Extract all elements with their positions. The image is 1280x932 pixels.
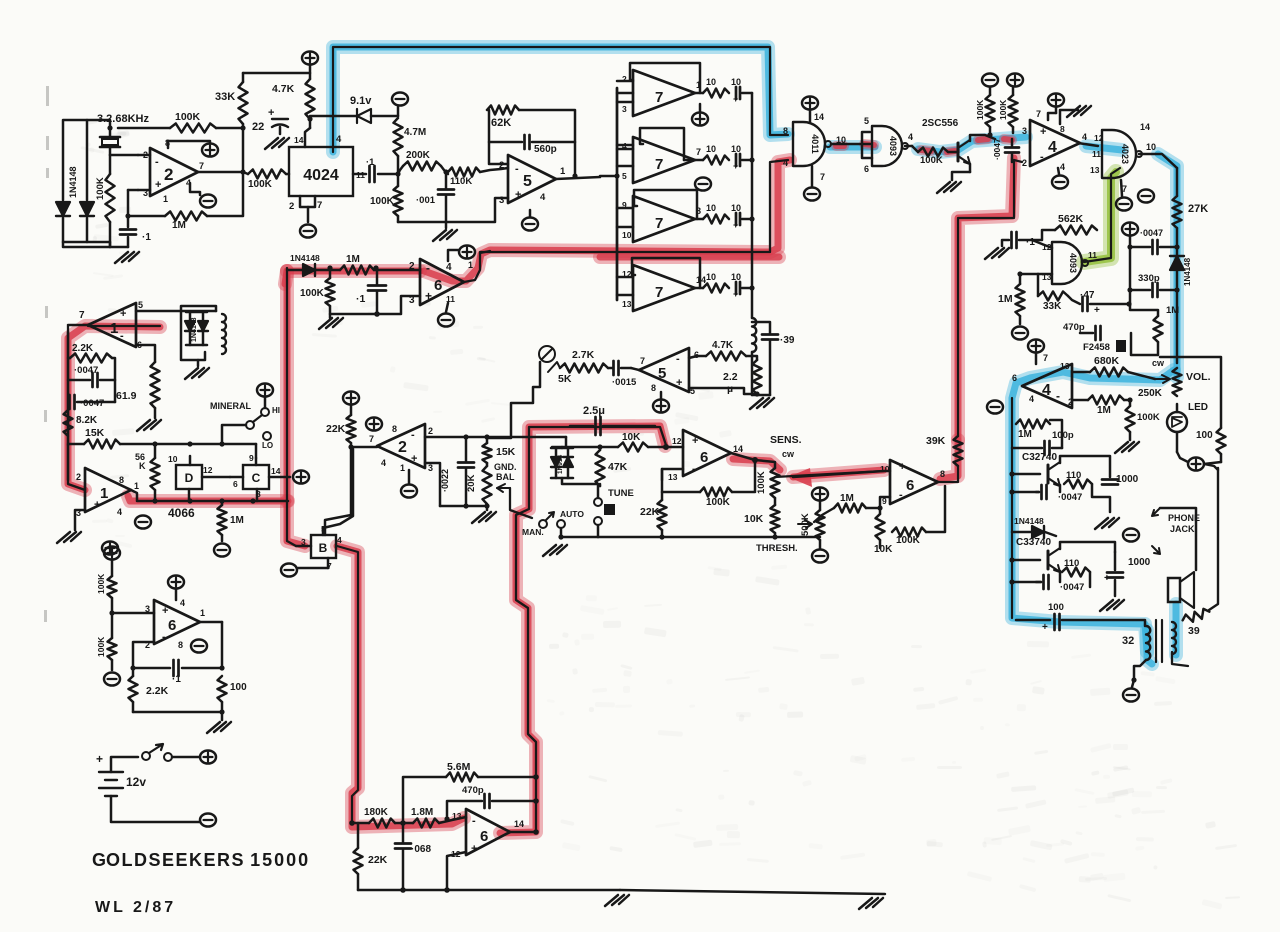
resistor 1.8M — [413, 819, 439, 828]
svg-text:8: 8 — [392, 424, 397, 434]
wire U5 to rail — [614, 173, 619, 178]
svg-text:4: 4 — [337, 535, 342, 545]
svg-text:+: + — [1094, 305, 1100, 316]
resistor 100K top — [170, 124, 216, 133]
resistor 39 slant — [1181, 607, 1210, 624]
svg-text:·068: ·068 — [411, 844, 431, 855]
svg-text:2.5μ: 2.5μ — [583, 405, 605, 417]
resistor 100K bl1 — [108, 576, 117, 598]
wire 100 r — [1160, 357, 1221, 428]
svg-text:·0015: ·0015 — [612, 377, 637, 388]
svg-text:6: 6 — [233, 479, 238, 489]
svg-text:+: + — [162, 605, 168, 617]
svg-text:1: 1 — [400, 463, 405, 473]
wire 2.5u leads — [570, 425, 593, 428]
svg-text:10: 10 — [168, 454, 178, 464]
wire .47 right — [1090, 303, 1129, 306]
wire 1M rcol — [1130, 305, 1158, 316]
wire left rails — [63, 120, 110, 200]
wire 4.7K down — [309, 119, 312, 128]
svg-text:8.2K: 8.2K — [76, 415, 98, 426]
svg-text:1M: 1M — [346, 254, 360, 265]
wire U5 plus input — [446, 198, 508, 222]
svg-text:+: + — [411, 453, 417, 465]
svg-text:·0047: ·0047 — [80, 398, 104, 409]
wire U8b out — [905, 145, 912, 148]
wire U8c in13 — [1038, 273, 1052, 276]
wire highlight blue audio loop — [1012, 370, 1174, 652]
U7c fb box — [634, 190, 697, 219]
wire xfmr — [1134, 660, 1146, 680]
svg-text:10K: 10K — [622, 432, 641, 443]
svg-text:470p: 470p — [462, 785, 484, 796]
svg-text:100: 100 — [1196, 430, 1213, 441]
svg-text:K: K — [139, 461, 146, 471]
svg-text:1N4148: 1N4148 — [1183, 257, 1192, 286]
svg-text:13: 13 — [452, 811, 462, 821]
IC U3 4024 box — [289, 147, 353, 196]
svg-text:+: + — [155, 179, 161, 191]
wire u2b net right — [487, 436, 566, 439]
wire fb loop — [207, 172, 243, 216]
power plus 22K — [343, 391, 359, 404]
wire audio under blue v — [1011, 398, 1013, 618]
comparator U7d — [633, 265, 695, 311]
svg-text:1N4148: 1N4148 — [68, 166, 78, 198]
wire switch plus — [172, 756, 200, 759]
power plus opamp2 — [202, 143, 218, 156]
svg-text:7: 7 — [820, 172, 825, 182]
wire Q3 base — [1012, 559, 1040, 562]
resistor 110 q3 — [1062, 568, 1090, 577]
wire U6a out — [464, 251, 490, 282]
svg-text:4: 4 — [1060, 162, 1065, 172]
svg-text:32: 32 — [1122, 635, 1134, 647]
U7b fb box — [640, 128, 684, 160]
wire highlight red 4066 row — [128, 496, 288, 501]
op-amp U1b — [85, 468, 131, 512]
transistor Q2 — [1047, 465, 1050, 483]
svg-text:1M: 1M — [840, 493, 854, 504]
svg-text:6: 6 — [700, 449, 708, 466]
wire U5 out — [556, 177, 600, 179]
wire U6b in12 — [666, 446, 683, 449]
wire thresh loop — [926, 486, 945, 532]
wire U4a in2 black — [958, 160, 1014, 436]
svg-text:D: D — [185, 471, 194, 485]
op-amp U6e — [466, 809, 510, 855]
resistor 100K pullups — [986, 95, 995, 127]
svg-text:10: 10 — [731, 144, 741, 154]
wire highlight red left loop — [68, 326, 160, 490]
pot VOL — [1173, 368, 1182, 396]
wire Q2 emitter net — [1059, 485, 1062, 492]
wire coil cap join — [751, 352, 754, 395]
svg-text:4023: 4023 — [1120, 144, 1130, 164]
svg-text:+: + — [1104, 573, 1110, 584]
gate U8c 4093 — [1052, 242, 1082, 284]
wire pullup2 — [1012, 127, 1015, 133]
wire highlight red mid column — [285, 271, 287, 284]
svg-text:100: 100 — [230, 682, 247, 693]
resistor 1M u4b — [1088, 396, 1124, 405]
op-amp U2 — [150, 148, 198, 196]
power minus U6a — [438, 313, 454, 326]
resistor 5.6M — [446, 773, 478, 782]
pot 500K arrow — [798, 520, 812, 528]
resistor 33K rm — [1038, 292, 1068, 301]
wire rcol mid — [1129, 290, 1132, 305]
svg-text:·0047: ·0047 — [1140, 228, 1163, 238]
power plus 500K — [812, 487, 828, 500]
wire U6b out — [731, 453, 755, 460]
wire 1M to pot — [814, 508, 834, 522]
resistor 2.2K — [70, 354, 112, 363]
resistor 100K vert — [106, 174, 115, 222]
resistor 110K — [448, 168, 480, 177]
resistor 100K bl2 — [108, 638, 117, 660]
comparator U7b — [633, 137, 695, 183]
svg-text:13: 13 — [1060, 361, 1070, 371]
svg-text:8: 8 — [119, 475, 124, 485]
svg-text:4: 4 — [336, 134, 342, 145]
op-amp U6c — [890, 460, 938, 504]
svg-text:100K: 100K — [896, 535, 921, 546]
svg-text:5: 5 — [622, 171, 627, 181]
wire U6e out — [510, 831, 536, 834]
wire batt bottom — [111, 796, 200, 822]
svg-text:10: 10 — [731, 203, 741, 213]
svg-text:F2458: F2458 — [1083, 342, 1110, 353]
svg-text:560p: 560p — [534, 144, 557, 155]
wire rcol bottom — [1131, 333, 1158, 355]
svg-text:2: 2 — [499, 160, 504, 171]
resistor 4.7K b — [706, 352, 746, 361]
svg-text:μ: μ — [727, 384, 733, 395]
svg-text:110K: 110K — [450, 176, 472, 187]
svg-text:2: 2 — [289, 201, 294, 212]
wire auto gnd — [560, 528, 563, 537]
svg-text:7: 7 — [655, 284, 663, 301]
svg-text:100K: 100K — [96, 573, 106, 594]
wire u4b fb — [1127, 397, 1132, 402]
resistor 27K — [1173, 196, 1182, 228]
svg-text:10K: 10K — [744, 513, 764, 525]
ground q3 — [1100, 600, 1124, 611]
power plus rcol — [1122, 222, 1138, 235]
svg-text:1M: 1M — [1166, 305, 1179, 316]
svg-text:7: 7 — [655, 156, 663, 173]
wire gndbal wiper — [510, 488, 532, 518]
wire pin2 from xtal — [110, 154, 138, 157]
U8a pwr — [802, 96, 818, 109]
svg-text:+: + — [94, 499, 100, 511]
svg-text:27K: 27K — [1188, 203, 1208, 215]
op-amp U4a — [1030, 120, 1080, 166]
gate U9 4023 — [1102, 130, 1136, 178]
wire B bottom — [327, 558, 330, 568]
wire diode box top — [561, 447, 564, 448]
resistor 2.2K bl — [129, 676, 138, 702]
svg-text:14: 14 — [814, 112, 824, 122]
resistor 100K u4b — [1126, 406, 1135, 432]
svg-text:7: 7 — [369, 434, 374, 444]
resistor 100K thresh — [892, 528, 926, 537]
wire left rail rx — [67, 332, 70, 445]
wire U2b apex — [351, 446, 377, 449]
wire C bottom — [256, 489, 259, 501]
resistor 1M rcol — [1154, 316, 1163, 342]
wire batt top — [111, 757, 138, 772]
wire 4.7M node — [395, 171, 400, 176]
power minus 4024 — [300, 224, 316, 237]
svg-text:SENS.: SENS. — [770, 434, 802, 446]
svg-text:14: 14 — [1140, 122, 1150, 132]
wire bl bottom — [133, 711, 222, 714]
svg-text:2: 2 — [1022, 158, 1027, 168]
pot 500K — [816, 510, 825, 540]
svg-text:5: 5 — [138, 300, 143, 310]
tune sq — [604, 504, 615, 515]
resistor 110 q2 — [1064, 480, 1092, 489]
U9 minus — [1116, 197, 1132, 210]
svg-text:2: 2 — [428, 426, 433, 436]
wire U1b in3 — [75, 510, 85, 530]
svg-text:8: 8 — [1060, 124, 1065, 134]
wire D right — [202, 476, 230, 479]
svg-text:61.9: 61.9 — [116, 390, 137, 402]
wire U6c in9 — [880, 497, 890, 508]
svg-text:10: 10 — [880, 464, 890, 474]
diode right col — [1170, 256, 1184, 270]
power plus U7a — [692, 112, 708, 125]
wire U5 fb — [489, 110, 508, 164]
pot 20K GNDBAL — [483, 466, 492, 504]
ground q2 — [1095, 518, 1119, 529]
U7a out rc — [695, 92, 703, 95]
power minus 1M — [214, 543, 230, 556]
svg-text:+: + — [733, 94, 738, 104]
svg-text:200K: 200K — [406, 150, 431, 161]
resistor 1M thresh — [834, 504, 866, 513]
svg-text:+: + — [733, 161, 738, 171]
svg-text:-: - — [1056, 389, 1060, 403]
power minus B — [281, 563, 297, 576]
wire U5b in — [631, 368, 639, 370]
svg-text:·001: ·001 — [416, 195, 436, 206]
svg-text:1N4148: 1N4148 — [1014, 516, 1044, 526]
capacitor .068 — [395, 844, 411, 849]
svg-text:-: - — [1040, 151, 1044, 163]
svg-text:1000: 1000 — [1128, 557, 1151, 568]
minus mid r — [1123, 528, 1139, 541]
wire U9 out — [1139, 154, 1177, 168]
svg-text:1: 1 — [163, 194, 168, 204]
auto circles — [539, 520, 547, 528]
wire U1b out — [131, 490, 288, 501]
svg-text:22: 22 — [252, 121, 264, 133]
ground osc — [115, 252, 139, 263]
svg-text:+: + — [899, 461, 905, 473]
svg-text:+: + — [425, 289, 432, 303]
wire 4.7K to vert — [746, 356, 757, 360]
wire 1.8M to pin13 — [439, 817, 466, 823]
diode D1 1N4148 — [56, 202, 70, 216]
comparator U7a — [633, 70, 695, 116]
power minus opamp2 — [200, 194, 216, 207]
svg-text:3: 3 — [145, 604, 150, 614]
wire out opamp2 — [198, 171, 243, 174]
svg-text:1: 1 — [110, 320, 118, 337]
svg-text:-: - — [899, 489, 903, 501]
svg-text:4: 4 — [381, 458, 386, 468]
svg-text:B: B — [319, 541, 328, 555]
diode pair — [551, 457, 561, 467]
coil diodes — [185, 321, 195, 331]
svg-text:100: 100 — [1048, 602, 1064, 613]
wire highlight blue feedback top — [333, 47, 788, 152]
svg-text:11: 11 — [1092, 149, 1101, 159]
resistor 1M 4066 — [218, 505, 227, 535]
svg-text:HI: HI — [272, 406, 280, 415]
wire 100K gnd — [398, 221, 446, 224]
wire xtal junction — [109, 154, 111, 156]
wire right rail low — [1209, 468, 1218, 610]
svg-text:-: - — [515, 163, 519, 175]
wire U1a in5 — [136, 310, 216, 313]
wire U4a out — [1078, 143, 1098, 146]
svg-text:4.7K: 4.7K — [272, 83, 295, 95]
svg-text:8: 8 — [178, 640, 183, 650]
wire highlight blue gate chain — [830, 140, 875, 154]
capacitor .1 out — [353, 173, 366, 176]
transistor Q3 — [1047, 551, 1050, 569]
wire Q3 cap lead — [1012, 581, 1041, 584]
svg-text:14: 14 — [271, 466, 281, 476]
svg-text:1N914: 1N914 — [557, 454, 564, 474]
svg-text:JACK: JACK — [1170, 524, 1195, 534]
resistor 2.7K — [560, 364, 608, 373]
minus bl — [104, 672, 120, 685]
wire 20K — [486, 463, 489, 466]
svg-text:2.2K: 2.2K — [72, 343, 94, 354]
wire 33K — [242, 73, 245, 82]
wire U6c in10 — [793, 471, 890, 477]
resistor 562K — [1055, 226, 1097, 235]
svg-text:1: 1 — [200, 608, 205, 618]
power minus U1b — [135, 515, 151, 528]
svg-text:-: - — [120, 330, 124, 342]
wire U8a out — [831, 143, 870, 146]
wire 47K bot — [599, 484, 602, 486]
U5 minus — [522, 217, 538, 230]
svg-text:100K: 100K — [1137, 412, 1160, 423]
svg-text:1: 1 — [100, 485, 108, 502]
resistor 100K u6b — [700, 488, 732, 497]
wire Q3 collector net — [1060, 542, 1115, 552]
speaker — [1168, 578, 1180, 602]
op-amp U6b — [683, 430, 731, 476]
power plus C — [293, 470, 309, 483]
svg-text:+: + — [96, 752, 103, 766]
svg-text:250K: 250K — [1138, 388, 1163, 399]
svg-text:6: 6 — [864, 164, 869, 174]
svg-text:2.2K: 2.2K — [146, 685, 169, 697]
svg-text:+: + — [471, 843, 477, 855]
wire fb loop black — [516, 427, 666, 832]
svg-text:4: 4 — [1048, 139, 1057, 156]
resistor 1M rm — [1016, 284, 1025, 316]
op-amp U5 — [508, 155, 556, 203]
ground coil — [197, 360, 200, 366]
resistor 180K — [369, 819, 395, 828]
svg-text:·0047: ·0047 — [992, 138, 1002, 160]
svg-text:-: - — [162, 631, 166, 643]
gate U8b 4093 — [872, 126, 902, 166]
svg-text:12: 12 — [203, 465, 213, 475]
svg-text:22K: 22K — [326, 423, 346, 435]
svg-text:680K: 680K — [1094, 355, 1120, 367]
wire Q2 collector net — [1060, 456, 1110, 477]
switch mineral — [261, 408, 269, 416]
wire jack rail — [1160, 508, 1196, 570]
switch D box — [176, 465, 202, 489]
svg-text:THRESH.: THRESH. — [756, 543, 798, 554]
svg-text:C33740: C33740 — [1016, 537, 1051, 548]
svg-text:+: + — [733, 220, 738, 230]
svg-text:2: 2 — [164, 165, 173, 184]
svg-text:-: - — [426, 261, 430, 275]
svg-text:1N4148: 1N4148 — [191, 317, 198, 342]
svg-text:14: 14 — [514, 819, 524, 829]
svg-text:7: 7 — [317, 200, 322, 211]
wire midcol black — [287, 268, 296, 546]
svg-text:3: 3 — [428, 463, 433, 473]
wire U6d fb — [133, 642, 154, 668]
svg-text:1M: 1M — [230, 515, 244, 526]
pullup pwr — [982, 73, 998, 86]
svg-text:12: 12 — [672, 436, 682, 446]
wire 1M top — [1020, 273, 1038, 276]
U7d fb box — [632, 258, 700, 288]
svg-text:·0047: ·0047 — [1060, 582, 1084, 593]
svg-text:8: 8 — [651, 383, 656, 393]
wire sens top — [755, 460, 775, 468]
svg-text:+: + — [268, 107, 274, 119]
wire det row black — [480, 160, 788, 252]
svg-text:cw: cw — [782, 449, 795, 459]
wire 100K u6b — [662, 469, 700, 492]
power plus U6a — [459, 245, 475, 258]
svg-text:100K: 100K — [706, 497, 731, 508]
power plus mineral — [257, 383, 273, 396]
svg-text:10: 10 — [1146, 142, 1156, 152]
svg-text:3: 3 — [622, 104, 627, 114]
wire B loop black — [337, 546, 358, 823]
svg-text:WL 2/87: WL 2/87 — [95, 899, 176, 916]
svg-text:1M: 1M — [998, 293, 1013, 305]
wire 110 q2 net — [1092, 484, 1110, 512]
svg-text:5K: 5K — [558, 373, 572, 385]
svg-text:·0047: ·0047 — [74, 365, 98, 376]
svg-text:39K: 39K — [926, 435, 946, 447]
diode D6 — [1032, 526, 1044, 538]
coil L1 — [181, 306, 216, 360]
op-amp U1a — [88, 303, 136, 347]
svg-text:1000: 1000 — [1116, 474, 1139, 485]
svg-text:VOL.: VOL. — [1186, 371, 1211, 383]
wire highlight red sens arrowhead — [788, 468, 812, 487]
